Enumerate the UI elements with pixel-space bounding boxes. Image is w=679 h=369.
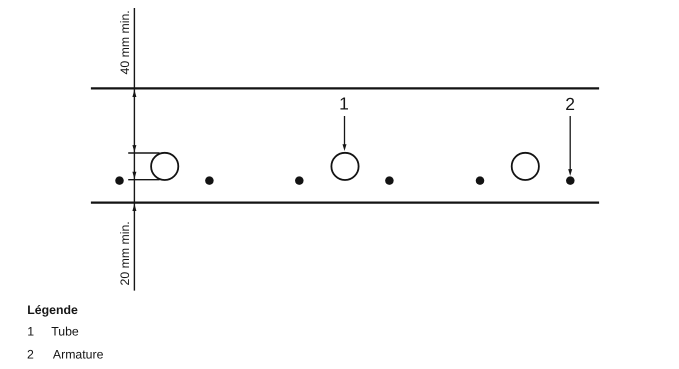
tube circle middle xyxy=(331,153,358,180)
rebar dot 6 xyxy=(566,176,575,185)
arrowhead down at tube-top tick xyxy=(132,145,136,152)
rebar dot 4 xyxy=(385,176,394,185)
tube circle left xyxy=(151,153,178,180)
dimension/extension vertical line xyxy=(133,8,135,291)
tube circle right xyxy=(512,153,539,180)
bottom slab edge line xyxy=(91,201,599,203)
label 2 arrowhead xyxy=(568,169,572,176)
rebar dot 3 xyxy=(295,176,304,185)
label 2 leader line xyxy=(569,116,571,170)
rebar dot 2 xyxy=(205,176,214,185)
rebar dot 1 xyxy=(115,176,124,185)
svg-text:1: 1 xyxy=(27,324,34,338)
arrowhead down at rebar-level tick xyxy=(132,172,136,179)
svg-text:40 mm min.: 40 mm min. xyxy=(118,10,132,74)
svg-text:Légende: Légende xyxy=(27,303,78,317)
rebar-level tick line xyxy=(128,179,159,181)
svg-text:Tube: Tube xyxy=(51,324,79,338)
tube-top tick line xyxy=(128,152,159,154)
svg-text:2: 2 xyxy=(565,94,575,114)
svg-text:2: 2 xyxy=(27,348,34,362)
rebar dot 5 xyxy=(476,176,485,185)
svg-text:20 mm min.: 20 mm min. xyxy=(118,221,132,285)
label 1 arrowhead xyxy=(343,144,347,151)
svg-text:1: 1 xyxy=(339,94,349,114)
arrowhead up at top slab line xyxy=(132,90,136,97)
svg-text:Armature: Armature xyxy=(53,348,104,362)
arrowhead up at bottom slab line xyxy=(132,204,136,211)
top slab edge line xyxy=(91,87,599,89)
label 1 leader line xyxy=(344,116,346,146)
